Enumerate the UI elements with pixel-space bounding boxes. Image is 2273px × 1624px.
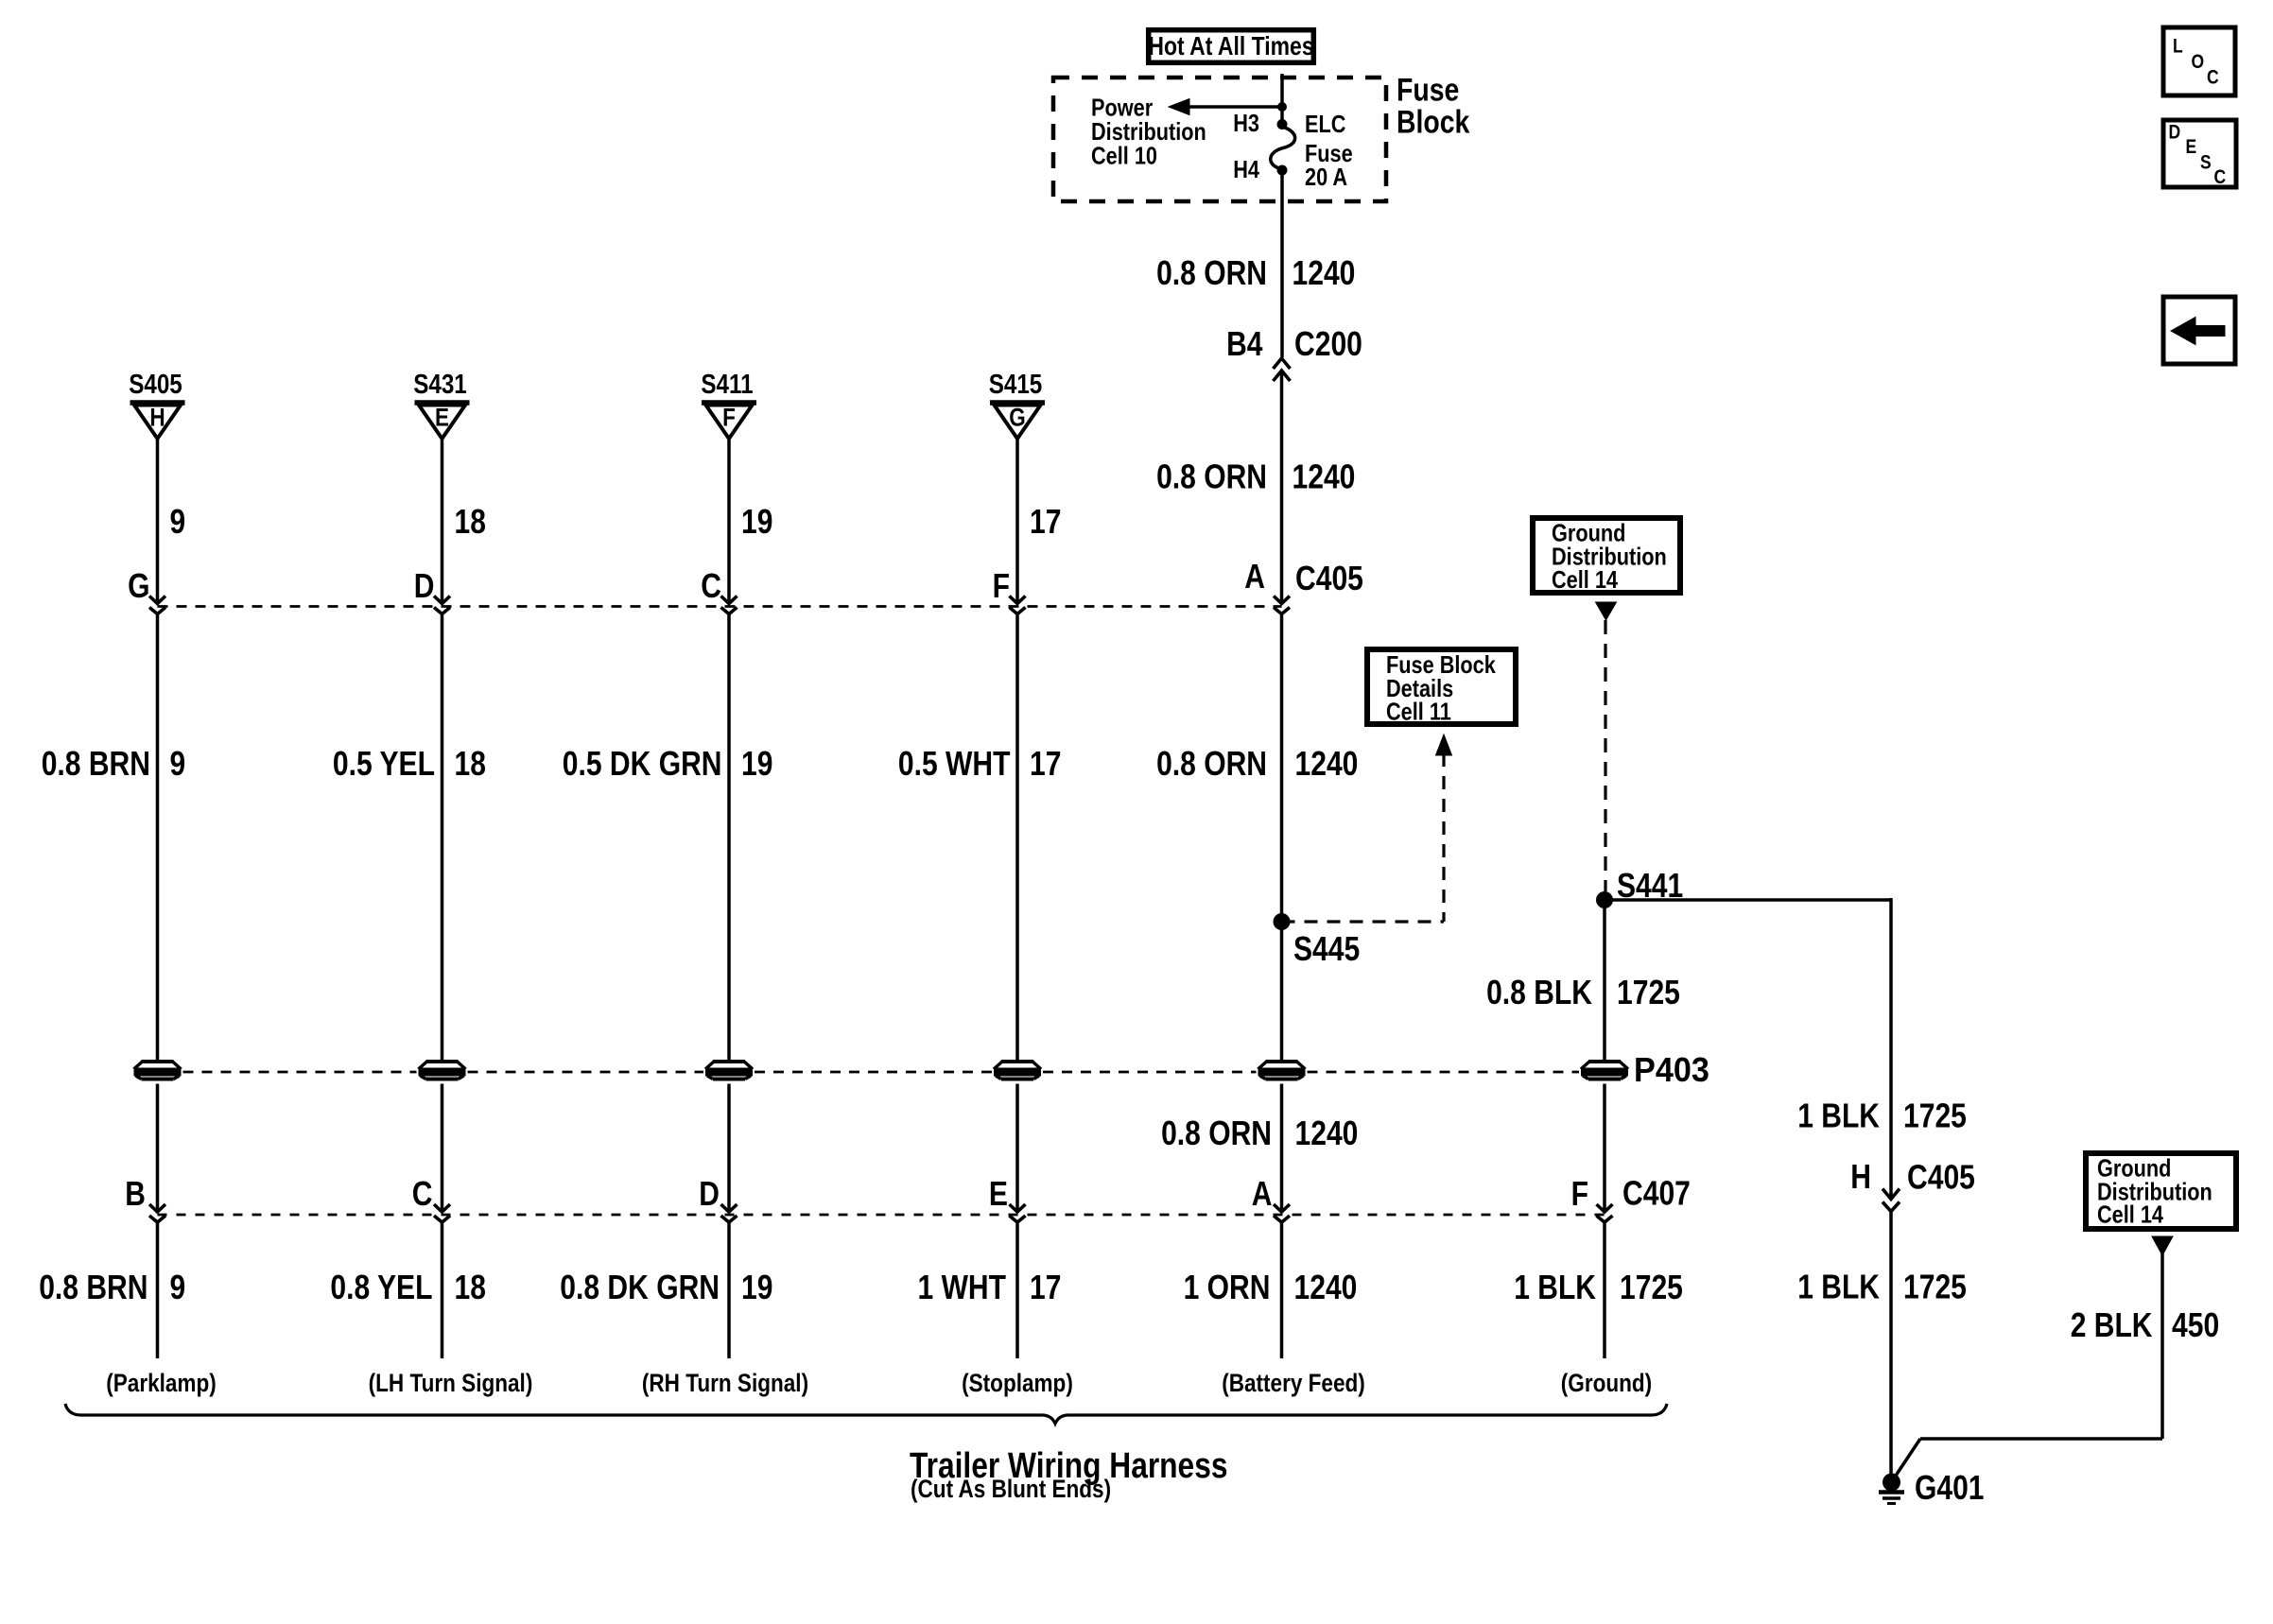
fuse F (ELC Fuse 20 A) element curve	[1271, 127, 1295, 169]
svg-text:19: 19	[741, 744, 772, 783]
svg-text:C407: C407	[1622, 1174, 1691, 1213]
svg-text:Cell 11: Cell 11	[1386, 698, 1451, 726]
svg-text:D: D	[414, 566, 435, 605]
svg-text:0.5 YEL: 0.5 YEL	[333, 744, 435, 783]
wire	[441, 614, 444, 1061]
ground distribution cell 14 reference box (lower)	[2086, 1153, 2236, 1229]
grommet P403 pass-through	[134, 1062, 182, 1080]
wire	[1280, 1222, 1284, 1358]
wire	[727, 1222, 731, 1358]
grommet P403 pass-through	[994, 1062, 1041, 1080]
svg-text:G401: G401	[1915, 1468, 1985, 1507]
grommet P403 pass-through	[705, 1062, 753, 1080]
svg-text:A: A	[1244, 557, 1265, 596]
svg-text:Cell 10: Cell 10	[1091, 142, 1157, 170]
svg-text:0.8 ORN: 0.8 ORN	[1156, 744, 1267, 783]
grommet P403 pass-through	[1581, 1062, 1628, 1080]
svg-text:G: G	[128, 566, 149, 605]
svg-text:1 BLK: 1 BLK	[1514, 1268, 1596, 1306]
svg-text:18: 18	[455, 1268, 486, 1306]
svg-text:F: F	[993, 566, 1010, 605]
svg-text:1240: 1240	[1295, 1114, 1359, 1152]
svg-text:P403: P403	[1634, 1050, 1709, 1089]
svg-text:1 ORN: 1 ORN	[1184, 1268, 1271, 1306]
splice S411	[701, 370, 756, 439]
svg-text:S445: S445	[1293, 929, 1360, 968]
wire 0.8 BLK 1725 S441 down	[1603, 900, 1606, 1061]
wire	[1280, 1084, 1284, 1212]
svg-text:(LH Turn Signal): (LH Turn Signal)	[369, 1369, 533, 1397]
svg-text:1240: 1240	[1294, 1268, 1358, 1306]
wire from S411	[727, 439, 731, 603]
svg-text:L: L	[2173, 36, 2183, 58]
wire	[156, 1222, 160, 1358]
svg-text:C: C	[701, 566, 721, 605]
svg-text:E: E	[989, 1174, 1008, 1213]
svg-text:0.5 DK GRN: 0.5 DK GRN	[563, 744, 722, 783]
back arrow icon box	[2163, 297, 2235, 364]
svg-text:S411: S411	[701, 370, 753, 400]
svg-text:2 BLK: 2 BLK	[2071, 1305, 2153, 1344]
svg-text:H: H	[1850, 1157, 1871, 1196]
svg-text:1725: 1725	[1903, 1097, 1967, 1135]
connector C407 dashed gang line	[158, 1214, 1605, 1217]
fuse block dashed enclosure	[1053, 78, 1386, 201]
svg-text:1725: 1725	[1620, 1268, 1683, 1306]
svg-text:C: C	[2207, 67, 2219, 89]
svg-text:1 BLK: 1 BLK	[1797, 1097, 1880, 1135]
wire	[156, 1084, 160, 1212]
wire	[1603, 1084, 1606, 1212]
wire S441 to ground branch	[1605, 898, 1891, 902]
svg-text:F: F	[1571, 1174, 1588, 1213]
svg-text:1240: 1240	[1293, 458, 1356, 496]
svg-text:H: H	[149, 404, 165, 432]
svg-text:19: 19	[741, 1268, 772, 1306]
svg-text:S: S	[2200, 152, 2212, 174]
svg-text:(Battery Feed): (Battery Feed)	[1222, 1369, 1365, 1397]
node Hot At All Times label box	[1149, 30, 1314, 63]
wire	[727, 1084, 731, 1212]
svg-text:D: D	[2169, 122, 2181, 144]
svg-text:0.5 WHT: 0.5 WHT	[898, 744, 1011, 783]
svg-text:C200: C200	[1294, 324, 1362, 363]
svg-text:1 BLK: 1 BLK	[1797, 1268, 1880, 1306]
svg-text:450: 450	[2172, 1305, 2219, 1344]
wire to power distribution (arrow)	[1186, 105, 1282, 109]
splice S445	[1274, 913, 1291, 930]
splice S415	[989, 370, 1045, 439]
svg-text:C405: C405	[1295, 559, 1363, 597]
svg-text:18: 18	[455, 744, 486, 783]
wire	[1015, 1222, 1019, 1358]
dashed ground reference route to S441	[1596, 602, 1617, 620]
svg-text:C: C	[412, 1174, 433, 1213]
svg-text:Cell 14: Cell 14	[2097, 1201, 2163, 1229]
DESC icon box	[2163, 120, 2236, 187]
svg-text:H3: H3	[1233, 109, 1259, 137]
fuse block details cell 11 reference box	[1367, 649, 1516, 724]
wire hot feed into fuse block	[1280, 74, 1284, 125]
svg-text:1 WHT: 1 WHT	[918, 1268, 1007, 1306]
wire	[441, 1222, 444, 1358]
svg-text:Cell 14: Cell 14	[1552, 565, 1618, 594]
svg-text:(Cut As Blunt Ends): (Cut As Blunt Ends)	[911, 1475, 1111, 1503]
svg-text:Fuse: Fuse	[1397, 73, 1459, 109]
wire from S415	[1015, 439, 1019, 603]
wire	[1015, 614, 1019, 1061]
wire 0.8 ORN 1240 fuse to C200	[1280, 170, 1284, 357]
connector C405 dashed gang line	[158, 605, 1282, 608]
svg-text:1240: 1240	[1293, 253, 1356, 292]
svg-text:0.8 BLK: 0.8 BLK	[1486, 973, 1592, 1011]
svg-text:9: 9	[170, 1268, 186, 1306]
wire	[727, 614, 731, 1061]
LOC icon box	[2163, 27, 2235, 95]
svg-text:A: A	[1252, 1174, 1273, 1213]
svg-text:S405: S405	[129, 370, 182, 400]
svg-text:S415: S415	[989, 370, 1043, 400]
svg-text:0.8 ORN: 0.8 ORN	[1156, 253, 1267, 292]
svg-text:D: D	[699, 1174, 720, 1213]
wire from S405	[156, 439, 160, 603]
svg-text:G: G	[1009, 404, 1026, 432]
svg-text:0.8 BRN: 0.8 BRN	[42, 744, 150, 783]
svg-text:Hot At All Times: Hot At All Times	[1148, 31, 1313, 60]
wire	[1015, 1084, 1019, 1212]
svg-text:B: B	[125, 1174, 146, 1213]
harness brace	[65, 1404, 1667, 1424]
svg-text:20 A: 20 A	[1305, 163, 1347, 191]
svg-text:Block: Block	[1397, 105, 1469, 141]
svg-text:9: 9	[170, 744, 186, 783]
svg-text:17: 17	[1030, 502, 1061, 541]
svg-text:19: 19	[741, 502, 772, 541]
svg-text:(Ground): (Ground)	[1561, 1369, 1652, 1397]
grommet P403 pass-through	[1258, 1062, 1306, 1080]
ground distribution cell 14 reference box	[1533, 518, 1680, 593]
svg-text:0.8 DK GRN: 0.8 DK GRN	[560, 1268, 720, 1306]
wire 1 BLK 1725 to G401	[1889, 1211, 1893, 1477]
wire	[1280, 614, 1284, 1061]
svg-text:H4: H4	[1233, 155, 1259, 183]
junction on ELC fuse feed	[1277, 102, 1287, 112]
svg-text:(Stoplamp): (Stoplamp)	[962, 1369, 1073, 1397]
wire	[1603, 1222, 1606, 1358]
svg-text:C405: C405	[1907, 1158, 1975, 1197]
splice S431	[413, 370, 469, 439]
svg-text:0.8 BRN: 0.8 BRN	[39, 1268, 147, 1306]
svg-text:E: E	[435, 404, 449, 432]
connector C200 pin B4	[1274, 358, 1291, 381]
svg-text:(Parklamp): (Parklamp)	[106, 1369, 217, 1397]
splice S441	[1596, 891, 1613, 908]
svg-text:1240: 1240	[1295, 744, 1359, 783]
grommet P403 pass-through	[419, 1062, 466, 1080]
svg-text:S431: S431	[413, 370, 467, 400]
splice S405	[129, 370, 184, 439]
svg-text:E: E	[2186, 136, 2197, 158]
wire 2 BLK 450 from ground distribution	[2152, 1236, 2173, 1255]
dashed reference route to S445	[1436, 734, 1452, 755]
svg-text:C: C	[2214, 166, 2227, 188]
grommet P403 dashed gang line	[183, 1071, 417, 1074]
wire	[441, 1084, 444, 1212]
svg-text:B4: B4	[1226, 324, 1262, 363]
svg-text:0.8 YEL: 0.8 YEL	[330, 1268, 432, 1306]
ground G401	[1883, 1474, 1900, 1492]
svg-text:1725: 1725	[1617, 973, 1680, 1011]
wire	[156, 614, 160, 1061]
svg-text:ELC: ELC	[1305, 110, 1346, 138]
svg-text:0.8 ORN: 0.8 ORN	[1161, 1114, 1272, 1152]
svg-text:0.8 ORN: 0.8 ORN	[1156, 458, 1267, 496]
svg-text:18: 18	[455, 502, 486, 541]
svg-text:9: 9	[170, 502, 186, 541]
svg-text:17: 17	[1030, 1268, 1061, 1306]
svg-text:F: F	[722, 404, 736, 432]
svg-text:17: 17	[1030, 744, 1061, 783]
wire from S431	[441, 439, 444, 603]
svg-text:O: O	[2192, 51, 2205, 73]
wire 0.8 ORN 1240 C200 to C405	[1280, 371, 1284, 603]
svg-text:(RH Turn Signal): (RH Turn Signal)	[642, 1369, 808, 1397]
wire to G401	[1920, 1437, 2162, 1441]
svg-text:1725: 1725	[1903, 1268, 1967, 1306]
